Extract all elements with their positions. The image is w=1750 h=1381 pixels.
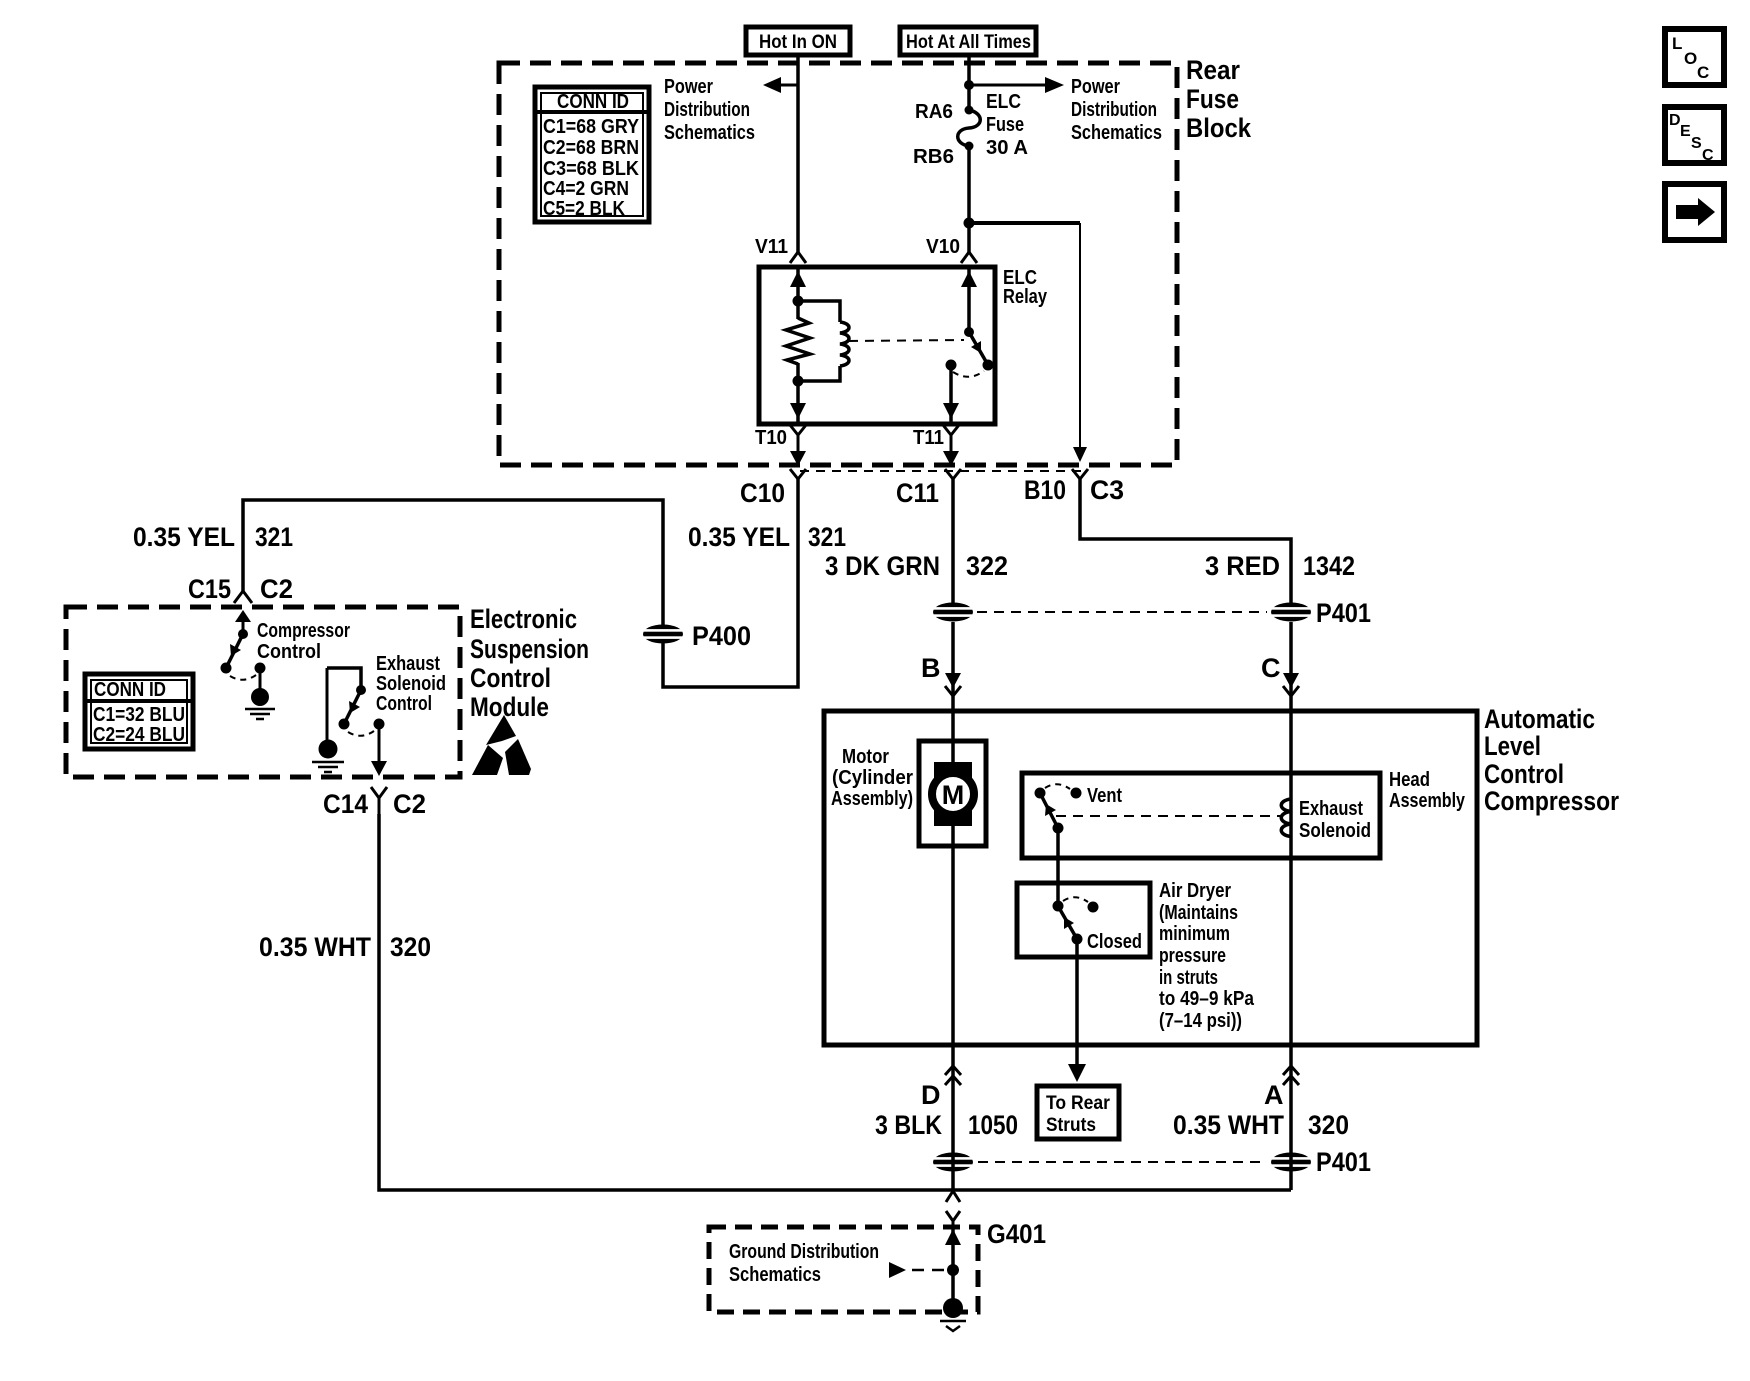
V10 connector fork: [961, 252, 977, 263]
C11 connector fork: [945, 469, 961, 479]
relay throw contact: [946, 360, 957, 371]
svg-text:3 DK GRN: 3 DK GRN: [825, 551, 940, 581]
svg-text:C1=68 GRY: C1=68 GRY: [543, 116, 640, 138]
svg-text:ELC: ELC: [986, 91, 1021, 113]
relay coil-side pin wire (V11-T10): [796, 267, 800, 319]
svg-text:(Maintains: (Maintains: [1159, 902, 1238, 924]
exhaust control throw contact: [374, 719, 385, 730]
svg-text:Schematics: Schematics: [729, 1264, 821, 1286]
dashed link to P401: [977, 611, 1267, 613]
compressor control arrow into module: [235, 610, 251, 634]
svg-text:P401: P401: [1316, 598, 1371, 628]
svg-text:D: D: [1669, 112, 1681, 129]
svg-text:Struts: Struts: [1046, 1115, 1096, 1136]
arrow up on relay pin V11: [790, 271, 806, 287]
svg-text:B10: B10: [1024, 475, 1066, 505]
V11 connector fork: [790, 252, 806, 263]
CONN ID table (ESCM): [85, 674, 193, 749]
wire from vent switch to air dryer: [1056, 828, 1060, 906]
head assembly box: [1022, 773, 1380, 858]
arrow to ground schematics: [889, 1262, 906, 1278]
svg-text:Air Dryer: Air Dryer: [1159, 880, 1231, 902]
svg-text:Power: Power: [664, 76, 713, 98]
svg-text:Control: Control: [257, 641, 321, 663]
svg-text:CONN ID: CONN ID: [557, 91, 629, 113]
arrow up on relay pin V10: [961, 271, 977, 287]
exhaust control ground ball: [319, 740, 338, 759]
relay blade end contact: [983, 360, 994, 371]
svg-text:C: C: [1702, 147, 1714, 164]
air dryer contact: [1088, 902, 1099, 913]
svg-text:M: M: [942, 780, 965, 810]
vent blade end contact: [1053, 823, 1064, 834]
Motor (Cylinder Assembly) label: [831, 746, 913, 810]
Automatic Level Control Compressor label: [1484, 704, 1619, 816]
relay switch pivot: [964, 327, 974, 337]
svg-text:Assembly): Assembly): [831, 788, 913, 810]
arrow to power distribution schematics (left): [763, 77, 781, 93]
compressor control blade end contact: [221, 663, 232, 674]
arrow at B10 exit: [1073, 447, 1087, 462]
arrowhead on compressor control blade: [230, 644, 241, 656]
compressor control travel arc: [230, 675, 256, 680]
next-page arrow box: [1665, 184, 1724, 240]
CONN ID table (rear fuse block): [535, 87, 649, 222]
svg-text:Module: Module: [470, 692, 549, 722]
svg-text:Exhaust: Exhaust: [376, 653, 440, 675]
arrow into pin B: [945, 673, 961, 688]
svg-text:Assembly: Assembly: [1389, 790, 1466, 812]
svg-text:C1=32 BLU: C1=32 BLU: [93, 704, 185, 726]
exhaust solenoid control switch pivot: [356, 685, 366, 695]
pin B connector chevron: [945, 686, 961, 696]
svg-text:RA6: RA6: [915, 101, 953, 123]
svg-text:C: C: [1261, 653, 1281, 683]
wire 1342 to pin C: [1289, 622, 1293, 711]
ground hatches G401: [940, 1321, 966, 1331]
svg-text:T10: T10: [755, 427, 787, 449]
svg-text:Head: Head: [1389, 769, 1430, 791]
svg-text:0.35 YEL: 0.35 YEL: [688, 522, 790, 552]
ground ball G401: [943, 1298, 963, 1318]
air dryer switch blade: [1058, 906, 1077, 939]
Power Distribution Schematics label (right): [1071, 76, 1162, 144]
svg-text:C10: C10: [740, 478, 785, 508]
svg-text:Fuse: Fuse: [986, 114, 1024, 136]
svg-text:D: D: [921, 1080, 941, 1110]
DESC legend box: [1665, 107, 1724, 164]
wire from fuse to V10 relay pin: [967, 146, 971, 254]
svg-text:minimum: minimum: [1159, 923, 1230, 945]
svg-text:pressure: pressure: [1159, 945, 1226, 967]
branch wire to power distribution (right): [969, 84, 1046, 87]
arrow up on ground wire: [945, 1229, 961, 1245]
relay actuation dashed link: [849, 340, 964, 341]
svg-text:B: B: [921, 653, 941, 683]
Exhaust Solenoid label: [1299, 798, 1371, 842]
svg-text:3 RED: 3 RED: [1205, 551, 1280, 581]
compressor control ground ball: [251, 688, 269, 706]
pin A connector chevrons: [1283, 1066, 1299, 1085]
compressor control switch pivot: [238, 629, 248, 639]
relay switch blade: [969, 332, 988, 365]
arrowhead on relay blade: [971, 341, 981, 353]
motor output wire to pin D: [951, 826, 955, 1045]
svg-text:Vent: Vent: [1087, 785, 1122, 807]
relay output wire (T11): [949, 365, 953, 424]
wire down to B10 (thin): [1079, 223, 1081, 448]
svg-text:Compressor: Compressor: [1484, 786, 1619, 816]
Electronic Suspension Control Module dashed box: [66, 607, 460, 777]
svg-text:V11: V11: [755, 236, 788, 258]
vent travel arc: [1045, 784, 1070, 789]
svg-text:Automatic: Automatic: [1484, 704, 1595, 734]
svg-text:P400: P400: [692, 621, 751, 651]
svg-text:Power: Power: [1071, 76, 1120, 98]
svg-text:C3=68 BLK: C3=68 BLK: [543, 158, 639, 180]
exhaust control output wire: [378, 724, 381, 772]
compressor control switch blade: [226, 634, 243, 668]
C14/C2 connector fork: [371, 787, 387, 814]
svg-text:Motor: Motor: [842, 746, 889, 768]
svg-text:C: C: [1697, 63, 1709, 82]
air dryer travel arc: [1063, 897, 1088, 902]
in-line connector P401: [1269, 603, 1313, 622]
air dryer box: [1017, 883, 1150, 957]
Compressor Control label: [257, 620, 350, 663]
wire 320 from pin A to ground bus: [1289, 1045, 1293, 1190]
svg-text:320: 320: [1308, 1110, 1349, 1140]
svg-text:30 A: 30 A: [986, 137, 1028, 159]
svg-text:322: 322: [966, 551, 1008, 581]
relay throw dashed travel arc: [953, 371, 984, 377]
arrowhead on air dryer blade: [1064, 917, 1074, 929]
junction at Hot At All Times feed: [964, 80, 974, 90]
svg-text:Solenoid: Solenoid: [376, 673, 446, 695]
wire 1342 RED from C3: [1080, 479, 1291, 603]
svg-text:Schematics: Schematics: [1071, 122, 1162, 144]
T10 connector fork: [790, 425, 806, 452]
svg-text:to 49–9 kPa: to 49–9 kPa: [1159, 988, 1255, 1010]
svg-text:Hot In ON: Hot In ON: [759, 32, 837, 53]
svg-text:Relay: Relay: [1003, 286, 1048, 308]
svg-text:Closed: Closed: [1087, 931, 1142, 953]
head assembly actuation dashed link: [1056, 815, 1280, 817]
svg-text:321: 321: [255, 522, 293, 552]
wire to ground G401: [951, 1228, 955, 1302]
motor (cylinder assembly): [919, 741, 986, 846]
Hot At All Times flag box: [900, 27, 1036, 55]
Air Dryer note label: [1159, 880, 1255, 1032]
arrow down on relay pin T10: [790, 403, 806, 419]
Power Distribution Schematics label (left): [664, 76, 755, 144]
exhaust control travel arc: [348, 731, 374, 736]
Ground Distribution Schematics dashed box: [709, 1227, 978, 1312]
svg-text:0.35 YEL: 0.35 YEL: [133, 522, 235, 552]
compressor control throw wire to ground: [259, 668, 262, 692]
relay resistor: [786, 318, 810, 364]
exhaust solenoid control switch blade: [344, 690, 361, 724]
Electronic Suspension Control Module label: [470, 604, 589, 722]
relay coil-side pin wire lower segment: [796, 363, 800, 424]
LOC legend box: [1665, 29, 1724, 85]
svg-text:321: 321: [808, 522, 846, 552]
svg-text:(Cylinder: (Cylinder: [832, 767, 913, 789]
ELC Relay label: [1003, 267, 1048, 308]
Ground Distribution Schematics label: [729, 1241, 879, 1286]
dashed link to P401 (bottom): [978, 1161, 1267, 1163]
ELC fuse 30A symbol: [958, 106, 981, 151]
svg-text:V10: V10: [926, 236, 960, 258]
svg-text:Solenoid: Solenoid: [1299, 820, 1371, 842]
wire from air dryer to rear struts: [1075, 939, 1079, 1066]
svg-text:Control: Control: [470, 663, 551, 693]
svg-text:RB6: RB6: [913, 146, 954, 168]
ESD sensitive device icon: [472, 715, 531, 775]
B10/C3 connector fork: [1072, 469, 1088, 479]
compressor control ground hatches: [245, 709, 275, 719]
svg-text:320: 320: [390, 932, 431, 962]
svg-text:Level: Level: [1484, 731, 1541, 761]
Hot In ON flag box: [746, 27, 850, 55]
svg-text:L: L: [1672, 34, 1682, 53]
wire V11 from Hot In ON down to relay: [796, 55, 800, 254]
svg-text:Distribution: Distribution: [1071, 99, 1157, 121]
svg-text:Distribution: Distribution: [664, 99, 750, 121]
vent switch blade: [1040, 793, 1058, 828]
compressor control throw contact: [255, 663, 266, 674]
svg-text:C4=2 GRN: C4=2 GRN: [543, 178, 629, 200]
svg-text:E: E: [1680, 123, 1691, 140]
svg-text:Block: Block: [1186, 113, 1252, 143]
svg-text:0.35 WHT: 0.35 WHT: [259, 932, 371, 962]
wire from junction right toward B10: [969, 221, 1080, 225]
svg-text:C15: C15: [188, 574, 231, 604]
arrow into pin C: [1283, 673, 1299, 688]
svg-text:C3: C3: [1090, 475, 1124, 505]
exhaust solenoid coil: [1281, 799, 1291, 837]
svg-text:To Rear: To Rear: [1046, 1093, 1111, 1114]
C15/C2 connector fork: [234, 591, 252, 603]
vent contact: [1071, 788, 1082, 799]
ELC relay box: [759, 267, 995, 424]
G401 connector fork: [946, 1211, 960, 1232]
arrow down at T10 exit: [790, 451, 806, 466]
ELC Fuse 30 A label: [986, 91, 1028, 159]
svg-text:1342: 1342: [1303, 551, 1355, 581]
air dryer blade end contact: [1072, 934, 1083, 945]
svg-text:Suspension: Suspension: [470, 634, 589, 664]
exhaust control ground hatches: [312, 762, 344, 772]
pin C connector chevron: [1283, 686, 1299, 696]
wire 322 to pin B: [951, 622, 955, 711]
junction bottom of coil: [793, 376, 804, 387]
arrow down at exhaust control output: [371, 761, 387, 776]
Exhaust Solenoid Control label: [376, 653, 446, 715]
arrow down at T11 exit: [943, 451, 959, 466]
wire 322 DK GRN from C11 down: [951, 479, 955, 603]
svg-text:C14: C14: [323, 789, 368, 819]
junction top of coil: [793, 296, 804, 307]
Automatic Level Control Compressor box: [824, 711, 1477, 1045]
C10 connector fork: [790, 469, 806, 479]
in-line connector on wire 322: [931, 603, 975, 622]
Head Assembly label: [1389, 769, 1466, 812]
arrowhead on vent blade: [1045, 804, 1056, 816]
vent switch pivot: [1035, 788, 1046, 799]
arrow to power distribution schematics (right): [1045, 77, 1064, 93]
svg-text:Electronic: Electronic: [470, 604, 577, 634]
svg-text:P401: P401: [1316, 1147, 1371, 1177]
ground bus junction fork: [946, 1191, 960, 1202]
svg-text:Hot At All Times: Hot At All Times: [906, 32, 1031, 53]
svg-text:C2=24 BLU: C2=24 BLU: [93, 724, 185, 746]
relay coil branch wire: [798, 301, 840, 322]
Rear Fuse Block label: [1186, 55, 1252, 143]
harness connector dashed line C10-C11-C3: [800, 470, 1085, 472]
svg-text:Fuse: Fuse: [1186, 84, 1239, 114]
svg-text:3 BLK: 3 BLK: [875, 1110, 942, 1140]
svg-text:Control: Control: [1484, 759, 1564, 789]
svg-text:T11: T11: [913, 427, 944, 449]
wire 320 WHT from C14 to ground bus: [379, 814, 1291, 1190]
relay coil: [840, 322, 849, 366]
air dryer switch pivot: [1053, 901, 1064, 912]
in-line connector on wire 1050: [931, 1153, 975, 1172]
wire 1050 from pin D to ground bus: [951, 1045, 955, 1190]
branch wire to power distribution (left): [778, 84, 798, 87]
svg-text:O: O: [1684, 49, 1697, 68]
svg-text:Exhaust: Exhaust: [1299, 798, 1363, 820]
svg-text:C5=2 BLK: C5=2 BLK: [543, 198, 625, 220]
svg-text:in struts: in struts: [1159, 967, 1218, 989]
relay switch-side pin wire (V10): [967, 267, 971, 332]
Rear Fuse Block dashed boundary: [499, 63, 1177, 465]
svg-text:C2=68 BRN: C2=68 BRN: [543, 137, 639, 159]
in-line connector P400: [641, 625, 685, 644]
svg-text:C2: C2: [393, 789, 426, 819]
arrowhead on exhaust control blade: [349, 701, 360, 713]
exhaust control blade end contact: [339, 719, 350, 730]
dashed link to ground wire: [912, 1269, 944, 1272]
svg-text:C2: C2: [260, 574, 293, 604]
svg-text:CONN ID: CONN ID: [94, 679, 166, 701]
svg-text:G401: G401: [987, 1219, 1046, 1249]
arrow to rear struts: [1068, 1064, 1086, 1082]
wire 321 YEL from C10 down: [243, 479, 798, 687]
junction on ground wire: [947, 1264, 959, 1276]
svg-text:C11: C11: [896, 478, 939, 508]
wire through head assembly to pin A: [1289, 711, 1293, 1045]
wire V10 from Hot At All Times down to fuse: [967, 55, 971, 109]
junction to B10 feed: [964, 218, 975, 229]
svg-text:1050: 1050: [968, 1110, 1018, 1140]
svg-text:Schematics: Schematics: [664, 122, 755, 144]
svg-text:Ground Distribution: Ground Distribution: [729, 1241, 879, 1263]
exhaust control ground branch wire: [326, 668, 329, 740]
svg-text:Rear: Rear: [1186, 55, 1240, 85]
svg-text:0.35 WHT: 0.35 WHT: [1173, 1110, 1284, 1140]
svg-text:(7–14 psi)): (7–14 psi)): [1159, 1010, 1242, 1032]
T11 connector fork: [943, 425, 959, 452]
svg-text:S: S: [1691, 135, 1702, 152]
To Rear Struts box: [1037, 1086, 1119, 1139]
pin D connector chevrons: [945, 1066, 961, 1085]
svg-text:Control: Control: [376, 693, 432, 715]
motor feed wire: [951, 711, 955, 765]
relay coil return wire: [798, 366, 840, 381]
arrow down on relay pin T11: [943, 403, 959, 419]
exhaust solenoid control feed wire: [327, 668, 361, 690]
svg-text:Compressor: Compressor: [257, 620, 350, 642]
in-line connector P401 (bottom): [1269, 1153, 1313, 1172]
svg-text:A: A: [1264, 1080, 1284, 1110]
